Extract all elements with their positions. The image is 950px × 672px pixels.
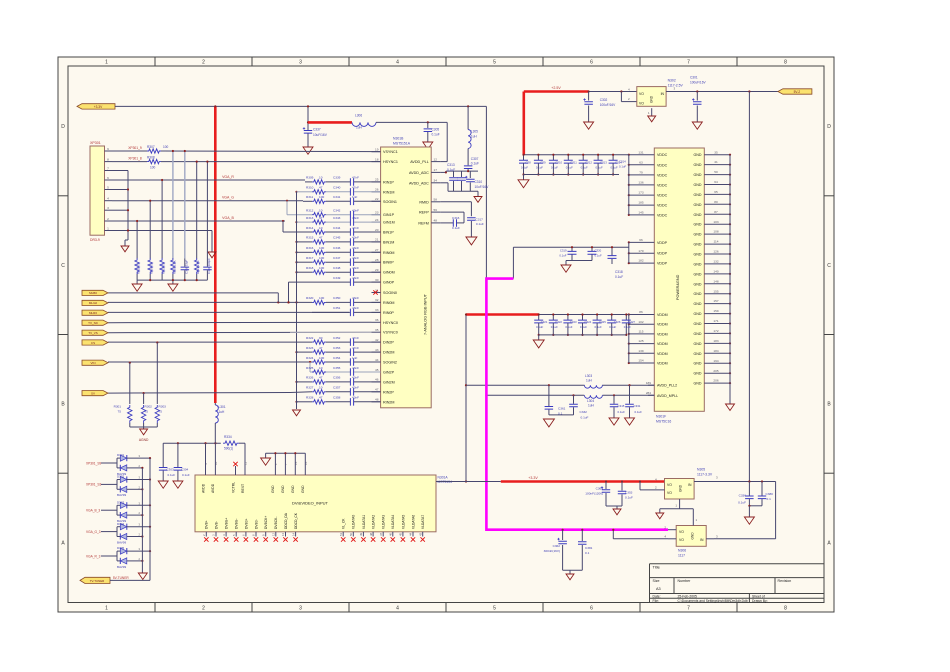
resistor R311: [312, 199, 326, 203]
svg-text:C319: C319: [560, 249, 567, 253]
wire CS tap: [156, 341, 158, 343]
wire N306 out jog: [613, 538, 668, 540]
svg-text:R314: R314: [306, 226, 314, 230]
svg-text:BIN0P: BIN0P: [383, 261, 394, 265]
svg-text:C307: C307: [471, 157, 479, 161]
wire input row pin y392: [108, 392, 290, 395]
svg-text:0.1uF: 0.1uF: [551, 165, 558, 169]
svg-text:+3.3V: +3.3V: [94, 105, 103, 109]
svg-text:C310: C310: [475, 180, 483, 184]
svg-text:10uF/16V: 10uF/16V: [313, 133, 328, 137]
svg-text:VLDATA1: VLDATA1: [362, 515, 366, 529]
svg-text:9: 9: [107, 147, 109, 151]
svg-text:C339: C339: [333, 176, 341, 180]
svg-text:10: 10: [319, 209, 323, 213]
svg-text:D: D: [61, 124, 65, 130]
resistor R324: [312, 360, 326, 364]
svg-text:C381: C381: [585, 546, 593, 550]
svg-text:GND: GND: [291, 485, 295, 493]
svg-text:VLDATA5: VLDATA5: [401, 515, 405, 529]
svg-text:VO: VO: [667, 491, 672, 495]
capacitor C317: [470, 202, 472, 216]
wire VDDP gnd rail: [566, 260, 592, 262]
svg-text:0.1uF: 0.1uF: [536, 325, 543, 329]
svg-text:100uF/16V: 100uF/16V: [600, 103, 616, 107]
svg-text:5V-2: 5V-2: [794, 90, 801, 94]
svg-text:L301: L301: [219, 405, 226, 409]
capacitor C313: [453, 171, 455, 177]
svg-text:145: 145: [638, 211, 643, 215]
svg-text:N305: N305: [697, 468, 705, 472]
svg-text:8: 8: [784, 60, 787, 66]
ground for C337: [303, 147, 313, 154]
svg-text:VDDP: VDDP: [657, 252, 668, 256]
svg-text:26: 26: [375, 188, 379, 192]
svg-text:VO: VO: [639, 92, 644, 96]
svg-text:VSYNC1: VSYNC1: [383, 150, 398, 154]
svg-text:46: 46: [389, 532, 393, 536]
svg-text:12: 12: [434, 157, 438, 161]
svg-text:VDDC: VDDC: [657, 204, 668, 208]
wire AVDD_MPLL: [486, 394, 584, 396]
svg-text:10: 10: [319, 366, 323, 370]
svg-text:Date:: Date:: [653, 595, 661, 599]
svg-text:43nF: 43nF: [352, 276, 359, 280]
svg-text:R313: R313: [306, 216, 314, 220]
svg-text:590(1): 590(1): [224, 447, 233, 451]
svg-text:C301: C301: [690, 76, 698, 80]
svg-text:R301: R301: [114, 405, 122, 409]
svg-text:VSYNC0: VSYNC0: [383, 331, 398, 335]
svg-text:GND: GND: [694, 342, 702, 346]
svg-text:0.1uF: 0.1uF: [580, 325, 587, 329]
svg-text:100: 100: [163, 145, 169, 149]
svg-text:MLG0: MLG0: [89, 301, 98, 305]
wire right vertical bus: [748, 92, 750, 482]
svg-text:30: 30: [375, 278, 379, 282]
svg-text:136: 136: [638, 181, 643, 185]
ground for C305: [423, 142, 433, 149]
ground for C302: [584, 122, 594, 129]
svg-text:43nF: 43nF: [352, 366, 359, 370]
capacitor C353: [326, 351, 350, 353]
svg-text:DVB+: DVB+: [205, 520, 209, 529]
ground C331: [625, 418, 635, 425]
svg-text:C345: C345: [333, 236, 341, 240]
svg-text:MST5134: MST5134: [438, 480, 452, 484]
ground C363: [613, 509, 621, 515]
wire to regulator N302: [589, 91, 637, 93]
svg-text:C363: C363: [596, 487, 604, 491]
svg-text:10: 10: [319, 176, 323, 180]
svg-text:R337 75: R337 75: [162, 263, 166, 274]
U N301F MST5C16 body: [654, 148, 704, 411]
svg-text:25: 25: [375, 178, 379, 182]
capacitor C358: [184, 259, 186, 267]
svg-text:GND: GND: [694, 203, 702, 207]
ground XP301 shield: [125, 239, 128, 241]
svg-text:VGA_B: VGA_B: [222, 216, 234, 220]
svg-text:43: 43: [375, 348, 379, 352]
svg-text:50: 50: [349, 532, 353, 536]
wire XP301_9: [112, 150, 147, 152]
svg-text:125: 125: [638, 339, 643, 343]
svg-text:GND: GND: [694, 183, 702, 187]
svg-text:XP301: XP301: [90, 141, 101, 145]
svg-text:4: 4: [396, 60, 399, 66]
svg-text:VDDC: VDDC: [657, 163, 668, 167]
svg-text:DDCD_DA: DDCD_DA: [284, 512, 288, 529]
svg-text:1nF: 1nF: [352, 356, 357, 360]
svg-text:R322: R322: [306, 336, 314, 340]
wire input row pin y252: [295, 251, 297, 253]
capacitor C337: [307, 106, 309, 130]
svg-text:C353: C353: [625, 491, 633, 495]
net flag MLB0: [82, 290, 108, 295]
svg-text:159: 159: [713, 309, 718, 313]
svg-text:43nF: 43nF: [352, 386, 359, 390]
wire input row pin y192: [295, 191, 297, 193]
svg-text:43nF: 43nF: [352, 296, 359, 300]
wire input row pin y402: [295, 401, 297, 403]
svg-text:R327: R327: [306, 386, 314, 390]
svg-text:DVBG+: DVBG+: [225, 518, 229, 529]
svg-text:148: 148: [713, 279, 718, 283]
wire C362 gnd rail: [563, 569, 583, 571]
capacitor C362: [562, 529, 564, 531]
svg-text:IN: IN: [661, 92, 665, 96]
svg-text:205: 205: [713, 369, 718, 373]
svg-text:0.1: 0.1: [585, 551, 590, 555]
svg-text:BAV99: BAV99: [117, 540, 126, 544]
svg-text:VDDC: VDDC: [657, 173, 668, 177]
svg-text:1: 1: [105, 606, 108, 612]
svg-text:4: 4: [396, 606, 399, 612]
svg-text:C: C: [61, 263, 65, 269]
wire ADC bottom rail: [448, 190, 478, 192]
wire TV_SD to HSYNC0: [108, 321, 372, 323]
svg-text:17: 17: [434, 168, 438, 172]
svg-text:DVB3+: DVB3+: [244, 518, 248, 529]
svg-text:47: 47: [319, 186, 323, 190]
resistor R323: [312, 350, 326, 354]
svg-text:171: 171: [713, 319, 718, 323]
capacitor C355: [326, 371, 350, 373]
svg-text:43nF: 43nF: [352, 256, 359, 260]
svg-text:65: 65: [714, 190, 718, 194]
svg-text:75: 75: [145, 410, 149, 414]
wire N301A gnd rail: [274, 453, 276, 466]
net flag MLR0: [82, 310, 108, 315]
svg-text:18: 18: [375, 157, 379, 161]
U N301F GND pins: [704, 154, 730, 156]
svg-text:RIN0M: RIN0M: [383, 301, 394, 305]
svg-text:7: 7: [687, 606, 690, 612]
svg-text:HSYNC0: HSYNC0: [383, 321, 398, 325]
svg-text:284: 284: [646, 391, 651, 395]
svg-text:File:: File:: [653, 599, 659, 603]
wire TV-TUNER: [110, 579, 150, 581]
svg-text:0.1uF: 0.1uF: [559, 253, 566, 257]
wire C363 gnd: [606, 505, 622, 507]
wire diode inner bus: [141, 468, 143, 573]
resistor R328: [312, 400, 326, 404]
capacitor C346: [326, 251, 350, 253]
svg-text:23: 23: [375, 211, 379, 215]
svg-text:+3.3V: +3.3V: [528, 476, 538, 480]
svg-text:C347: C347: [333, 256, 341, 260]
svg-text:20: 20: [375, 228, 379, 232]
svg-text:47: 47: [319, 376, 323, 380]
svg-text:Number: Number: [678, 579, 692, 583]
svg-text:C331: C331: [634, 404, 641, 408]
wire input row pin y242: [295, 241, 297, 243]
svg-text:114: 114: [714, 240, 719, 244]
svg-text:47nF: 47nF: [352, 226, 359, 230]
wire input row pin y182: [305, 181, 312, 183]
svg-text:2: 2: [202, 60, 205, 66]
capacitor C339: [326, 181, 350, 183]
svg-text:R310: R310: [306, 186, 314, 190]
svg-text:VO: VO: [679, 530, 684, 534]
diode pair D301 BAV99: [101, 462, 117, 464]
svg-text:131: 131: [638, 150, 643, 154]
svg-text:VLDATA3: VLDATA3: [382, 515, 386, 529]
svg-text:VLDATA4: VLDATA4: [391, 515, 395, 529]
ground N301A: [261, 458, 271, 465]
svg-text:GND: GND: [694, 243, 702, 247]
svg-text:90: 90: [319, 336, 323, 340]
resistor R326: [312, 380, 326, 384]
svg-text:C327: C327: [628, 320, 635, 324]
svg-text:185: 185: [638, 201, 643, 205]
net flag CS: [82, 340, 108, 345]
svg-text:0.1uF: 0.1uF: [432, 133, 440, 137]
svg-text:0.1uF: 0.1uF: [596, 165, 603, 169]
svg-text:43nF: 43nF: [352, 236, 359, 240]
U N301F VDDP pins: [629, 241, 655, 243]
wire ref join: [463, 212, 465, 223]
svg-text:VO: VO: [639, 101, 644, 105]
svg-text:Title: Title: [653, 565, 661, 570]
svg-text:DVBG-: DVBG-: [235, 519, 239, 529]
resistor R335: [135, 258, 139, 274]
capacitor C301: [696, 92, 698, 101]
wire +3.3V horizontal: [115, 105, 486, 107]
svg-text:79: 79: [639, 171, 643, 175]
svg-text:XP301_8: XP301_8: [128, 157, 142, 161]
capacitor C315: [613, 394, 615, 396]
capacitor C319: [571, 247, 573, 251]
svg-text:100: 100: [319, 256, 324, 260]
svg-text:N302: N302: [668, 78, 676, 82]
capacitor C347: [326, 261, 350, 263]
svg-text:GND: GND: [694, 282, 702, 286]
red X on SOGIN0 pin: [373, 290, 377, 294]
svg-text:GIN0P: GIN0P: [383, 281, 395, 285]
border zone ticks: [154, 57, 156, 66]
svg-text:C325: C325: [599, 320, 606, 324]
svg-text:POWER&GND: POWER&GND: [676, 274, 680, 300]
svg-text:32: 32: [375, 298, 379, 302]
svg-text:R334: R334: [224, 435, 232, 439]
svg-text:C354: C354: [333, 356, 341, 360]
wire TV_VS to VSYNC0: [108, 331, 290, 333]
svg-text:0.1uF: 0.1uF: [551, 325, 558, 329]
wire REFP: [440, 211, 464, 213]
svg-text:AVDD_MPLL: AVDD_MPLL: [657, 394, 678, 398]
svg-text:0.1uF: 0.1uF: [452, 226, 460, 230]
svg-text:0.1uF: 0.1uF: [595, 253, 602, 257]
inductor L304: [584, 395, 602, 398]
svg-text:GND: GND: [679, 484, 683, 492]
capacitor C343: [326, 221, 350, 223]
svg-text:GND: GND: [694, 213, 702, 217]
svg-text:C351: C351: [333, 306, 341, 310]
wire AVDD_PLL to filter: [446, 122, 448, 161]
svg-text:47: 47: [319, 216, 323, 220]
svg-text:6: 6: [107, 176, 109, 180]
svg-text:1117-2.5V: 1117-2.5V: [668, 83, 684, 87]
svg-text:C360 100pF: C360 100pF: [207, 258, 211, 274]
wire input row pin y372: [309, 361, 311, 363]
regulator U N306: [676, 526, 706, 547]
svg-text:GND: GND: [694, 372, 702, 376]
resistor R301: [128, 405, 132, 423]
svg-text:21: 21: [375, 238, 379, 242]
svg-text:VL_CK: VL_CK: [342, 518, 346, 529]
svg-text:41: 41: [714, 160, 718, 164]
svg-text:VGA_R: VGA_R: [222, 175, 234, 179]
svg-text:10uF/16V: 10uF/16V: [475, 185, 490, 189]
svg-text:D305: D305: [117, 546, 125, 550]
svg-text:C349: C349: [333, 276, 341, 280]
svg-text:C348: C348: [333, 266, 341, 270]
resistor R307: [147, 149, 161, 153]
svg-text:TV-TUNER: TV-TUNER: [90, 579, 104, 583]
wire REFM: [440, 222, 453, 224]
svg-text:C326: C326: [614, 320, 621, 324]
svg-text:GND: GND: [694, 362, 702, 366]
svg-text:GIN1P: GIN1P: [383, 213, 395, 217]
svg-text:1117-3.3V: 1117-3.3V: [697, 473, 713, 477]
svg-text:43nF: 43nF: [352, 246, 359, 250]
svg-text:50: 50: [714, 170, 718, 174]
ground VDDP decap: [561, 265, 571, 272]
wire input row pin y382: [295, 381, 297, 383]
svg-text:C342: C342: [333, 209, 341, 213]
svg-text:VIN: VIN: [90, 361, 95, 365]
svg-text:RMID: RMID: [419, 200, 429, 204]
net flag VIN: [82, 360, 108, 365]
capacitor C350: [326, 301, 350, 303]
svg-text:AGND: AGND: [139, 438, 149, 442]
wire AGND rail: [129, 423, 131, 427]
diode pair D304 BAV99: [101, 531, 117, 533]
U N301A MST5134 body: [195, 475, 436, 532]
svg-text:C314: C314: [619, 160, 626, 164]
svg-text:0.1uF: 0.1uF: [447, 168, 455, 172]
wire input row pin y232: [282, 220, 284, 222]
svg-text:C323: C323: [570, 320, 577, 324]
svg-text:R302: R302: [145, 405, 153, 409]
svg-text:51: 51: [339, 532, 343, 536]
inductor L303: [584, 385, 602, 388]
svg-text:194: 194: [713, 359, 718, 363]
svg-text:GND: GND: [694, 352, 702, 356]
ground VDDC decap: [518, 180, 529, 188]
svg-text:1uH: 1uH: [219, 410, 226, 414]
svg-text:L305: L305: [471, 130, 478, 134]
svg-text:GND: GND: [281, 485, 285, 493]
capacitor C342: [326, 214, 350, 216]
svg-text:44: 44: [375, 358, 379, 362]
svg-text:14: 14: [291, 532, 295, 536]
capacitor C363: [605, 480, 607, 482]
svg-text:C316: C316: [452, 216, 460, 220]
wire VDDM rail: [539, 314, 629, 316]
svg-text:47nF: 47nF: [352, 336, 359, 340]
svg-text:8: 8: [784, 606, 787, 612]
svg-text:VCTRL: VCTRL: [231, 482, 235, 493]
svg-text:47: 47: [319, 396, 323, 400]
svg-text:TV_SD: TV_SD: [88, 321, 99, 325]
svg-text:C302: C302: [600, 98, 608, 102]
svg-text:VGA_R_3: VGA_R_3: [86, 554, 101, 558]
svg-text:C320: C320: [595, 249, 602, 253]
svg-text:D301: D301: [117, 453, 125, 457]
power flag 5V-2: [778, 89, 812, 94]
wire +2.5V red: [522, 92, 525, 155]
ground C304: [173, 481, 183, 488]
svg-text:R303: R303: [159, 405, 167, 409]
svg-text:66: 66: [639, 238, 643, 242]
svg-text:GND: GND: [694, 302, 702, 306]
svg-text:47: 47: [319, 346, 323, 350]
svg-text:C337: C337: [313, 128, 321, 132]
svg-text:157: 157: [713, 299, 718, 303]
svg-text:0.1uF: 0.1uF: [536, 165, 543, 169]
diode pair D303 BAV99: [101, 509, 117, 511]
U N306 pins: [668, 529, 676, 531]
svg-text:GIN1M: GIN1M: [383, 221, 395, 225]
svg-text:100: 100: [319, 356, 324, 360]
resistor R331: [195, 258, 199, 274]
capacitor C341: [326, 200, 350, 202]
ground for N302: [651, 108, 653, 116]
svg-text:47nF: 47nF: [352, 176, 359, 180]
svg-text:100: 100: [319, 296, 324, 300]
svg-text:A3: A3: [656, 587, 661, 591]
svg-text:XP301_9: XP301_9: [128, 146, 142, 150]
svg-text:R308: R308: [147, 156, 155, 160]
svg-text:GND: GND: [694, 292, 702, 296]
ground ref: [466, 237, 477, 245]
ground pin1: [208, 252, 216, 258]
svg-text:REFP: REFP: [419, 211, 429, 215]
svg-text:VDDM: VDDM: [657, 352, 668, 356]
resistor R308: [147, 159, 161, 163]
svg-text:MST5151A: MST5151A: [393, 142, 411, 146]
ground C336: [744, 517, 754, 524]
svg-text:0.1uF: 0.1uF: [738, 501, 746, 505]
svg-text:AVDD: AVDD: [201, 483, 205, 493]
capacitor C354: [326, 361, 350, 363]
svg-text:R325: R325: [306, 366, 314, 370]
svg-text:24: 24: [375, 218, 379, 222]
ground N306: [692, 509, 694, 526]
svg-text:63: 63: [639, 160, 643, 164]
